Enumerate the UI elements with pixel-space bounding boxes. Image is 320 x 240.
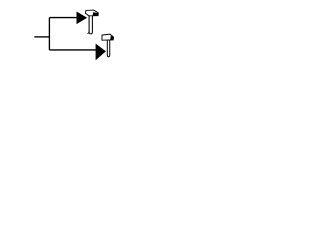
pin head top bbox=[85, 10, 98, 16]
background bbox=[0, 0, 150, 69]
arrowhead top (filled triangle) bbox=[77, 12, 86, 23]
wire top branch bbox=[49, 17, 77, 19]
pin head bottom side shading bbox=[110, 36, 113, 40]
wire vertical bus bbox=[48, 18, 50, 50]
pin shaft top foot curl bbox=[87, 31, 89, 33]
pin shaft top bbox=[89, 15, 92, 34]
arrowhead bottom (filled triangle) bbox=[96, 45, 105, 60]
pin head bottom bbox=[102, 34, 114, 40]
pin shaft bottom bbox=[107, 39, 109, 57]
wire bottom branch bbox=[49, 49, 96, 51]
pin head top side shading bbox=[93, 12, 99, 16]
wire input stub bbox=[34, 36, 49, 38]
